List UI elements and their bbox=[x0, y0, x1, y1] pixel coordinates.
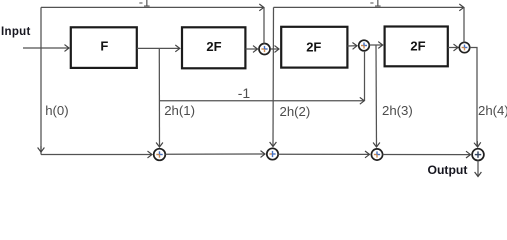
bottom bus: B2 to B3 bbox=[278, 153, 369, 155]
wire: riser from middle wire into adder A2 bbox=[364, 51, 366, 101]
wire: 2F #1 to adder A1 bbox=[245, 48, 257, 50]
wire: adder A3 output to 2h(4) drop (x=477) bbox=[470, 48, 477, 147]
svg-text:-1: -1 bbox=[139, 0, 151, 9]
wire: drop from top wire #1 into adder A1 bbox=[263, 7, 265, 43]
bottom bus: B3 to B4 bbox=[383, 154, 470, 156]
wire: 2F #3 to adder A3 bbox=[448, 47, 458, 49]
wire: adder A1 to 2F #2 bbox=[271, 48, 279, 50]
node h(0) tap vertical (x=41) bbox=[40, 7, 42, 154]
svg-text:2F: 2F bbox=[306, 39, 321, 54]
block 2F #1 bbox=[182, 27, 245, 68]
adder A3 bbox=[459, 42, 469, 52]
top feedforward wire -1 #2 bbox=[274, 6, 464, 8]
arrowhead into bottom adder B4 bbox=[476, 141, 478, 147]
arrowhead down on h(0) tap bbox=[40, 146, 42, 152]
svg-text:F: F bbox=[100, 38, 108, 53]
wire: output drop below adder B4 bbox=[477, 161, 479, 177]
svg-text:2h(4): 2h(4) bbox=[478, 103, 507, 118]
wire: input into block F bbox=[23, 47, 69, 49]
bottom bus: B1 to B2 bbox=[165, 153, 264, 155]
svg-text:h(0): h(0) bbox=[45, 103, 68, 118]
adder B3 bbox=[371, 149, 382, 160]
svg-text:2h(1): 2h(1) bbox=[164, 103, 195, 118]
wire: 2F #2 to adder A2 bbox=[347, 45, 356, 47]
adder B2 bbox=[267, 148, 278, 159]
svg-text:Output: Output bbox=[428, 163, 468, 177]
bottom summing bus: start to adder B1 bbox=[41, 154, 152, 156]
wire: adder A2 to 2F #3 bbox=[370, 44, 383, 46]
node 2h(1) tap vertical (x=159) bbox=[158, 48, 160, 146]
top feedforward wire -1 #1 bbox=[41, 6, 263, 8]
adder A2 bbox=[359, 40, 370, 51]
svg-text:2h(3): 2h(3) bbox=[382, 103, 413, 118]
block 2F #2 bbox=[281, 27, 347, 68]
svg-text:Input: Input bbox=[1, 26, 31, 38]
svg-text:-1: -1 bbox=[370, 0, 382, 9]
adder B1 bbox=[154, 149, 166, 161]
svg-text:2F: 2F bbox=[206, 39, 221, 54]
adder A1 bbox=[259, 44, 270, 55]
wire: drop from top wire #2 into adder A3 bbox=[463, 7, 465, 42]
block F bbox=[71, 27, 137, 68]
svg-text:2F: 2F bbox=[410, 38, 425, 53]
adder B4 bbox=[472, 149, 484, 161]
node 2h(2) tap vertical (x=273) bbox=[272, 7, 275, 146]
middle feedforward wire -1 bbox=[159, 100, 363, 102]
block 2F #3 bbox=[385, 27, 448, 67]
svg-text:2h(2): 2h(2) bbox=[280, 104, 311, 119]
svg-text:-1: -1 bbox=[238, 85, 251, 101]
node 2h(3) tap vertical (x=376) bbox=[375, 45, 378, 147]
wire: F to 2F #1 bbox=[137, 47, 180, 49]
